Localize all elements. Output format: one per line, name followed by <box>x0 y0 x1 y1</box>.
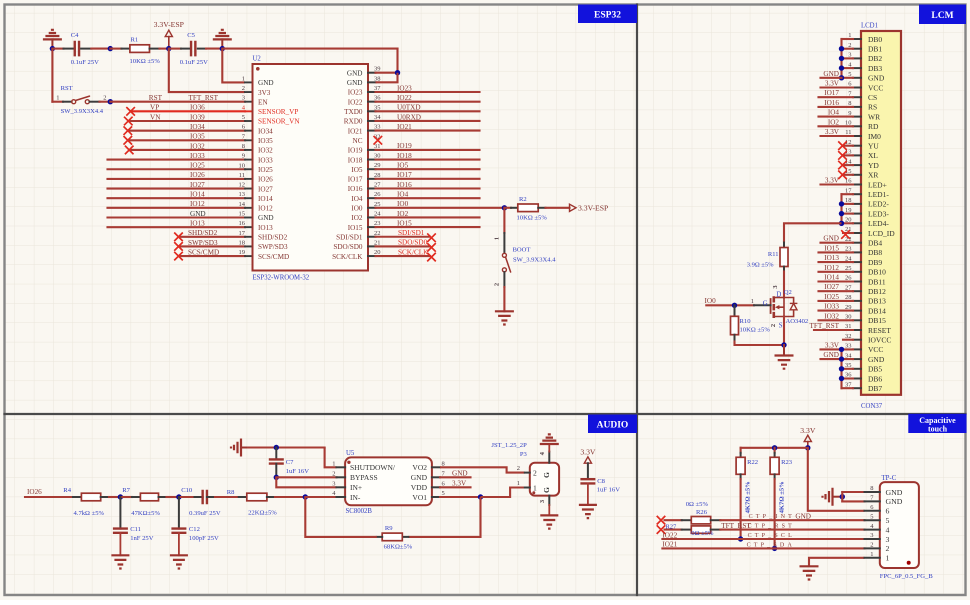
wire U2 pin 35 (U0TXD) <box>376 110 480 112</box>
svg-text:IO34: IO34 <box>190 123 205 131</box>
svg-text:DB5: DB5 <box>868 365 882 374</box>
wire node to U5 pin4 <box>305 496 336 498</box>
svg-text:AUDIO: AUDIO <box>597 421 629 431</box>
no-connect X pin 18 <box>174 242 183 251</box>
wire node to R7 <box>120 496 132 498</box>
svg-text:DB14: DB14 <box>868 306 886 315</box>
svg-text:DB3: DB3 <box>868 64 882 73</box>
svg-text:1: 1 <box>332 460 335 467</box>
svg-text:DB11: DB11 <box>868 277 886 286</box>
no-connect X pin 15 <box>838 171 847 180</box>
wire R7 to C12 node <box>167 496 179 498</box>
svg-text:BYPASS: BYPASS <box>350 473 378 482</box>
svg-text:1: 1 <box>494 237 501 240</box>
wire U2 pin 34 (U0RXD) <box>376 120 480 122</box>
svg-text:FPC_6P_0.5_FG_B: FPC_6P_0.5_FG_B <box>880 573 934 580</box>
svg-text:9: 9 <box>242 153 245 160</box>
wire LCD1 pin 11 <box>821 135 854 137</box>
junction dot RST node <box>108 99 113 104</box>
svg-text:C7: C7 <box>286 459 294 466</box>
wire stub LCD1 pin 21 <box>843 232 853 234</box>
svg-text:RST: RST <box>61 85 73 92</box>
svg-text:4K7Ω ±5%: 4K7Ω ±5% <box>745 481 752 513</box>
svg-text:RXD0: RXD0 <box>344 118 363 126</box>
svg-text:IO18: IO18 <box>348 156 363 164</box>
power port 3.3V-ESP (right) <box>570 203 609 212</box>
wire down to CTP pin6 / GND label <box>808 448 865 511</box>
wire U2 pin 6 (IO34) <box>128 130 245 132</box>
svg-text:CTP_SDA: CTP_SDA <box>747 542 795 548</box>
resistor R26 <box>657 501 721 525</box>
svg-text:VDD: VDD <box>411 483 428 492</box>
svg-text:R8: R8 <box>227 489 235 496</box>
svg-text:YD: YD <box>868 161 879 170</box>
svg-text:IO35: IO35 <box>190 133 205 141</box>
wire C4 to R1 node <box>91 48 110 50</box>
wire RST to node <box>100 101 111 103</box>
svg-text:IO21: IO21 <box>348 127 363 135</box>
svg-text:SC8002B: SC8002B <box>346 508 373 515</box>
wire U2 pin 36 (IO22) <box>376 101 480 103</box>
svg-text:IO2: IO2 <box>351 214 363 222</box>
junction dot source/gnd <box>781 342 786 347</box>
svg-text:IO13: IO13 <box>258 224 273 232</box>
svg-text:R27: R27 <box>665 524 677 531</box>
svg-text:IO27: IO27 <box>258 185 273 193</box>
svg-text:IO2: IO2 <box>828 118 840 126</box>
P3 pin2 black lead <box>525 472 530 474</box>
svg-text:touch: touch <box>928 424 948 433</box>
svg-text:0Ω ±5%: 0Ω ±5% <box>691 530 714 537</box>
svg-text:14: 14 <box>239 201 246 208</box>
svg-text:DB4: DB4 <box>868 239 882 248</box>
no-connect X pin 19 <box>174 252 183 261</box>
LCD1 black pin leads <box>853 38 861 40</box>
section title LCM <box>919 5 966 25</box>
wire stub LCD1 pin 12 <box>843 145 853 147</box>
svg-text:JST_1.25_2P: JST_1.25_2P <box>491 442 527 449</box>
TP-C pin names <box>886 488 903 563</box>
svg-text:YU: YU <box>868 142 879 151</box>
svg-text:2: 2 <box>886 544 890 553</box>
svg-text:IO5: IO5 <box>397 162 409 170</box>
junction dot GND2 <box>220 46 225 51</box>
wire U2 pin39 GND <box>376 72 398 74</box>
svg-text:IO15: IO15 <box>397 219 412 227</box>
svg-text:IO19: IO19 <box>397 142 412 150</box>
P3 pin3 stub to ground below <box>539 496 550 516</box>
svg-text:DB13: DB13 <box>868 297 886 306</box>
ground below C11 <box>111 555 129 568</box>
svg-text:G: G <box>763 300 768 307</box>
section title AUDIO <box>588 415 637 434</box>
svg-text:R23: R23 <box>781 459 793 466</box>
svg-text:1: 1 <box>56 94 59 101</box>
no-connect X pin 21 <box>841 230 850 239</box>
wire U2 pin 24 (IO2) <box>376 216 480 218</box>
LCD1 pin names <box>868 35 895 393</box>
junction dot at GND1 / rail <box>50 46 55 51</box>
U2 right pin numbers <box>374 66 381 256</box>
svg-text:XR: XR <box>868 171 878 180</box>
svg-text:4.7kΩ ±5%: 4.7kΩ ±5% <box>74 510 105 517</box>
svg-text:IO12: IO12 <box>258 205 273 213</box>
TP-C pin numbers <box>870 485 874 558</box>
section divider horizontal <box>5 413 966 415</box>
svg-text:D: D <box>776 291 781 298</box>
ground left of TP-C (rotated) <box>823 488 843 506</box>
svg-text:CTP_SCL: CTP_SCL <box>748 533 795 539</box>
svg-text:DB10: DB10 <box>868 268 886 277</box>
svg-text:IO26: IO26 <box>258 176 273 184</box>
svg-text:SWP/SD3: SWP/SD3 <box>258 243 288 251</box>
U5 pin names <box>350 463 428 502</box>
resistor R2 <box>504 196 547 222</box>
wire to ground <box>783 345 785 356</box>
svg-text:LED3-: LED3- <box>868 209 889 218</box>
svg-text:VP: VP <box>150 104 159 112</box>
svg-text:GND: GND <box>868 355 885 364</box>
svg-text:S: S <box>779 323 783 330</box>
svg-text:EN: EN <box>258 98 268 106</box>
wire U2 pin25 IO0 to R2 <box>376 207 505 209</box>
junction dot IN-/R9 <box>303 494 308 499</box>
svg-text:GND: GND <box>258 79 274 87</box>
svg-text:LED+: LED+ <box>868 180 887 189</box>
wire U2 pin 16 (IO13) <box>108 226 246 228</box>
svg-text:GND: GND <box>868 74 885 83</box>
wire R27 to CTP_RST <box>720 529 864 531</box>
svg-text:0.1uF 25V: 0.1uF 25V <box>71 59 99 66</box>
no-connect X pin 6 <box>124 126 133 135</box>
svg-text:IO33: IO33 <box>258 156 273 164</box>
svg-text:BOOT: BOOT <box>513 247 531 254</box>
junction dot 3.3V <box>805 445 810 450</box>
transistor Q2 AO3402 <box>770 285 808 330</box>
wire LCD1 pin 7 <box>819 96 854 98</box>
svg-text:IN-: IN- <box>350 493 361 502</box>
resistor R11 <box>747 243 788 272</box>
wire 3.3V rail to R22/R23 <box>741 447 808 449</box>
ground below BOOT <box>495 311 514 324</box>
wire LCD1 pin 22 <box>821 242 854 244</box>
wire LCD1 pin 33 <box>821 348 854 350</box>
svg-text:IO32: IO32 <box>824 312 839 320</box>
svg-text:8: 8 <box>242 143 245 150</box>
svg-text:R11: R11 <box>768 251 779 258</box>
wire U2 pin 8 (IO32) <box>129 149 245 151</box>
svg-text:DB1: DB1 <box>868 45 882 54</box>
svg-text:IO17: IO17 <box>397 171 412 179</box>
svg-text:3.3V: 3.3V <box>825 341 840 349</box>
wire TP-C pin1 to ground <box>809 558 865 567</box>
resistor R22 <box>736 448 758 514</box>
svg-text:IO27: IO27 <box>824 283 839 291</box>
svg-text:2: 2 <box>332 470 335 477</box>
svg-text:LED1-: LED1- <box>868 190 889 199</box>
wire LCD1 pins 17-20 LED bus <box>842 194 854 223</box>
resistor R4 <box>63 487 109 517</box>
U5 black pin leads <box>337 466 346 468</box>
svg-text:5: 5 <box>242 114 245 121</box>
svg-text:C5: C5 <box>187 32 195 39</box>
svg-text:IO12: IO12 <box>190 200 205 208</box>
svg-text:G: G <box>542 472 551 478</box>
svg-text:10: 10 <box>239 162 246 169</box>
wire U2 pin 18 (SWP/SD3) <box>179 245 246 247</box>
svg-text:IO5: IO5 <box>351 166 363 174</box>
ground GND2 (above rail) <box>213 30 232 49</box>
svg-text:1: 1 <box>533 484 537 493</box>
svg-text:IO15: IO15 <box>824 244 839 252</box>
wire LCD1 pins 1-5 GND bus <box>842 39 854 78</box>
svg-text:SCK/CLK: SCK/CLK <box>398 248 429 256</box>
svg-text:4: 4 <box>886 525 890 534</box>
svg-text:GND: GND <box>452 470 468 478</box>
svg-text:LED2-: LED2- <box>868 200 889 209</box>
wire LCD1 pin 25 <box>819 271 854 273</box>
ground left of C7 (rotated) <box>231 439 248 457</box>
no-connect X pin 22 <box>427 233 436 242</box>
svg-text:GND: GND <box>886 497 903 506</box>
svg-text:IO33: IO33 <box>190 152 205 160</box>
ground below C12 <box>170 555 188 568</box>
svg-text:IO14: IO14 <box>190 191 205 199</box>
wire stub LCD1 pin 14 <box>843 164 853 166</box>
no-connect X pin 12 <box>838 141 847 150</box>
wire VO1 to R9 feedback <box>408 497 480 537</box>
svg-text:1: 1 <box>751 298 754 305</box>
wire LCD1 pin 10 <box>819 125 854 127</box>
capacitor C10 <box>181 487 221 517</box>
wire U2 pin 27 (IO16) <box>376 187 480 189</box>
IC U5 SC8002B body <box>345 450 432 515</box>
svg-text:ESP32-WROOM-32: ESP32-WROOM-32 <box>253 275 310 282</box>
junction dot C12 <box>176 494 181 499</box>
wire U2 pin 11 (IO26) <box>108 178 246 180</box>
junction dots LED bus <box>839 201 844 206</box>
wire U2 pin 4 (IO36) <box>131 110 245 112</box>
wire U2 pin 19 (SCS/CMD) <box>179 255 246 257</box>
svg-text:SHD/SD2: SHD/SD2 <box>258 234 288 242</box>
svg-text:10KΩ ±5%: 10KΩ ±5% <box>517 215 548 222</box>
switch RST SW_3.9X3X4.4 <box>52 49 106 115</box>
wire R8 to IN- node <box>275 496 305 498</box>
svg-text:SENSOR_VN: SENSOR_VN <box>258 118 300 126</box>
svg-text:68KΩ±5%: 68KΩ±5% <box>384 544 413 551</box>
junction dots GND bus pins 2-5 <box>839 46 844 51</box>
wire rail gnd1 to C4 <box>52 48 63 50</box>
svg-text:R4: R4 <box>63 487 71 494</box>
svg-text:IO36: IO36 <box>190 104 205 112</box>
svg-text:IO18: IO18 <box>397 152 412 160</box>
wire LCD1 pin 24 <box>819 261 854 263</box>
capacitor C5 <box>180 32 208 66</box>
wire U2 pin 31 (IO19) <box>376 149 480 151</box>
no-connect X pin 20 <box>427 253 436 262</box>
junction dot C11 <box>118 494 123 499</box>
wire R1 to 3.3V-ESP node <box>160 48 169 50</box>
wire R4 to C11 node <box>109 496 120 498</box>
svg-text:3.3V: 3.3V <box>825 80 840 88</box>
svg-text:1nF 25V: 1nF 25V <box>130 535 154 542</box>
svg-text:2: 2 <box>494 283 501 286</box>
svg-text:1: 1 <box>517 480 520 487</box>
svg-text:17: 17 <box>239 230 246 237</box>
svg-text:IO16: IO16 <box>824 99 839 107</box>
wire IO22 to CTP_SCL <box>662 538 864 540</box>
svg-text:10KΩ ±5%: 10KΩ ±5% <box>740 327 771 334</box>
svg-text:DB7: DB7 <box>868 384 882 393</box>
svg-text:SDI/SD1: SDI/SD1 <box>336 233 363 241</box>
svg-text:IO26: IO26 <box>190 171 205 179</box>
svg-text:IO4: IO4 <box>828 109 840 117</box>
svg-text:1uF 16V: 1uF 16V <box>286 468 310 475</box>
svg-text:IO34: IO34 <box>258 127 273 135</box>
wire LCD1 pins 33-37 GND bus <box>842 349 854 388</box>
svg-text:RD: RD <box>868 122 879 131</box>
svg-text:SENSOR_VP: SENSOR_VP <box>258 108 298 116</box>
svg-text:IO13: IO13 <box>824 254 839 262</box>
svg-text:IO26: IO26 <box>27 488 42 496</box>
resistor R8 <box>227 489 278 517</box>
junction dot R23/IO21 <box>772 546 777 551</box>
wire U2 pin 10 (IO25) <box>108 168 246 170</box>
svg-text:NC: NC <box>353 137 363 145</box>
junction dot VO1 <box>478 494 483 499</box>
svg-text:0Ω ±5%: 0Ω ±5% <box>686 501 709 508</box>
svg-text:CON37: CON37 <box>861 403 883 410</box>
svg-text:DB6: DB6 <box>868 374 882 383</box>
svg-text:TXD0: TXD0 <box>344 108 363 116</box>
svg-text:Q2: Q2 <box>784 289 792 296</box>
svg-text:IO0: IO0 <box>351 205 363 213</box>
resistor R10 <box>731 305 771 340</box>
svg-text:SHD/SD2: SHD/SD2 <box>188 229 218 237</box>
wire LCD1 pin 23 <box>819 251 854 253</box>
svg-text:IO25: IO25 <box>824 293 839 301</box>
ground below C8 <box>579 505 597 518</box>
no-connect X pin 5 <box>124 117 133 126</box>
wire rail node to R1 <box>110 48 121 50</box>
wire R2 to 3.3V-ESP port <box>546 207 570 209</box>
black pin leads U2 right <box>368 72 376 74</box>
wire RST node to U2 pin3 (EN) <box>110 101 245 103</box>
svg-text:SCS/CMD: SCS/CMD <box>258 253 289 261</box>
wire U5 VDD stub <box>440 486 471 488</box>
wire R11 to Q2 drain <box>783 272 785 298</box>
capacitor C8 <box>580 478 620 505</box>
svg-text:VCC: VCC <box>868 83 883 92</box>
no-connect X pin 13 <box>838 151 847 160</box>
wire LCD1 pin 29 <box>819 310 854 312</box>
U5 pin numbers <box>332 460 445 497</box>
svg-text:2: 2 <box>517 465 520 472</box>
wire BOOT to ground <box>503 287 505 311</box>
no-connect X pin 7 <box>124 136 133 145</box>
wire LCD1 pin 34 <box>821 358 854 360</box>
wire U2 pin 21 (SDO/SD0) <box>376 245 431 247</box>
wire U2 pin 17 (SHD/SD2) <box>179 236 246 238</box>
svg-text:100pF 25V: 100pF 25V <box>189 535 219 542</box>
wire C5 to GND2 <box>206 48 222 50</box>
no-connect X pin 32 (NC) <box>374 136 383 145</box>
wire U2 pin 22 (SDI/SD1) <box>376 236 431 238</box>
svg-text:3: 3 <box>332 480 335 487</box>
svg-text:IO23: IO23 <box>348 89 363 97</box>
Q2 gate black lead <box>754 304 771 306</box>
wire U5 VO2 to P3 pin2 <box>440 467 525 472</box>
svg-text:IO14: IO14 <box>258 195 273 203</box>
svg-text:GND: GND <box>258 214 274 222</box>
svg-text:VO2: VO2 <box>412 463 427 472</box>
wire LCD1 pin 6 <box>821 86 854 88</box>
svg-text:IO19: IO19 <box>348 147 363 155</box>
section title ESP32 <box>578 5 637 24</box>
svg-text:IO39: IO39 <box>190 113 205 121</box>
connector P3 JST_1.25_2P body <box>491 442 559 496</box>
svg-text:SW_3.9X3X4.4: SW_3.9X3X4.4 <box>61 108 104 115</box>
ground below P3 pin3 <box>540 515 558 528</box>
wire corner down to U5 pin1 <box>325 448 337 468</box>
svg-text:IO17: IO17 <box>348 176 363 184</box>
resistor R9 <box>377 525 413 551</box>
wire U2 pin 15 (GND) <box>108 216 246 218</box>
junction dot C7 top <box>274 445 279 450</box>
wire U2 pin 30 (IO18) <box>376 159 480 161</box>
wire U2 pin 28 (IO17) <box>376 178 480 180</box>
svg-text:R22: R22 <box>747 459 758 466</box>
svg-text:22KΩ±5%: 22KΩ±5% <box>248 510 277 517</box>
svg-text:C11: C11 <box>130 526 141 533</box>
ground below pin1 <box>800 566 819 579</box>
wire R22 to CTP_SCL <box>740 479 742 539</box>
svg-text:U2: U2 <box>253 56 262 63</box>
wire R9 to IN- node <box>305 497 377 537</box>
section title Capacitive touch <box>908 414 966 434</box>
svg-text:3.9Ω ±5%: 3.9Ω ±5% <box>747 262 774 269</box>
svg-text:IO33: IO33 <box>824 303 839 311</box>
power port 3.3V-ESP <box>154 20 184 48</box>
svg-text:0.39uF 25V: 0.39uF 25V <box>189 510 221 517</box>
svg-text:IO2: IO2 <box>397 210 409 218</box>
wire R26 to CTP_INT <box>720 519 864 521</box>
TP-C black pin leads <box>865 491 880 493</box>
P3 pin1 black lead <box>525 487 530 489</box>
svg-text:C4: C4 <box>71 32 79 39</box>
svg-text:DB15: DB15 <box>868 316 886 325</box>
U2 right pin names <box>332 69 363 260</box>
junction dot R22/IO22 <box>738 536 743 541</box>
wire LED4- to R11 <box>784 223 842 242</box>
svg-text:SCK/CLK: SCK/CLK <box>332 253 363 261</box>
resistor R23 <box>770 448 793 514</box>
ground below Q2 <box>775 356 794 369</box>
wire LCD1 pin 31 <box>814 329 853 331</box>
svg-text:15: 15 <box>239 211 246 218</box>
svg-text:AO3402: AO3402 <box>786 318 809 325</box>
junction dot C7 bottom / BYPASS <box>274 475 279 480</box>
svg-text:11: 11 <box>239 172 245 179</box>
svg-text:VN: VN <box>150 113 161 121</box>
svg-text:IO22: IO22 <box>397 94 412 102</box>
svg-text:IO0: IO0 <box>705 297 717 305</box>
svg-text:5: 5 <box>886 516 890 525</box>
wire stub LCD1 pin 13 <box>843 154 853 156</box>
svg-text:IO22: IO22 <box>348 98 363 106</box>
svg-text:DB2: DB2 <box>868 54 882 63</box>
svg-text:3.3V-ESP: 3.3V-ESP <box>154 20 184 29</box>
